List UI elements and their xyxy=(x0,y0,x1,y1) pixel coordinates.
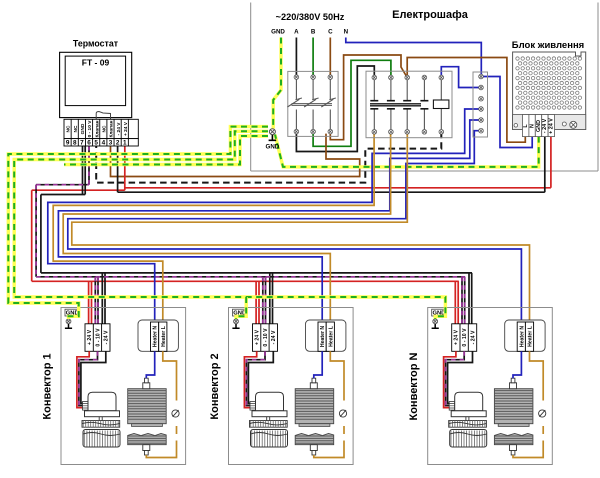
svg-text:C: C xyxy=(328,29,333,36)
cabinet ground GND symbol xyxy=(266,129,280,151)
svg-text:Термостат: Термостат xyxy=(73,39,119,49)
svg-text:GND: GND xyxy=(80,123,86,134)
svg-text:- 24 V: - 24 V xyxy=(542,118,548,133)
svg-text:Конвектор 2: Конвектор 2 xyxy=(209,353,221,419)
wire neutral N supply xyxy=(346,38,482,77)
wire N to convector 1 heater xyxy=(48,109,479,322)
wire +24V bus to convectors xyxy=(32,190,459,324)
wire N to convector 2 heater xyxy=(58,120,478,322)
svg-text:- 24 V: - 24 V xyxy=(116,122,122,136)
wire L contactor pole 2 to convector 2 heater xyxy=(63,132,390,322)
supply ~220/380V 50Hz labels xyxy=(271,12,348,36)
wire PE ground bus to convector 1 xyxy=(8,127,268,319)
wire N strip to power supply N xyxy=(483,77,532,148)
svg-text:5: 5 xyxy=(94,140,98,147)
svg-text:7: 7 xyxy=(80,140,84,147)
wire PE ground bus to convector N xyxy=(64,136,268,165)
svg-text:NC: NC xyxy=(66,125,72,132)
wire phase C breaker to contactor xyxy=(330,55,407,140)
convector N xyxy=(408,308,552,465)
svg-text:Конвектор 1: Конвектор 1 xyxy=(42,353,54,419)
contactor KM1 xyxy=(366,71,452,138)
svg-text:A: A xyxy=(294,29,299,36)
wire PE ground bus to convector 2 xyxy=(14,131,445,319)
wire PE power supply GND to ground point xyxy=(275,135,539,167)
terminal strip X1 (N distribution) xyxy=(473,72,488,137)
svg-text:Клапан: Клапан xyxy=(109,120,115,137)
svg-text:9: 9 xyxy=(66,140,70,147)
power supply Блок живлення xyxy=(512,40,586,137)
svg-text:Клапан: Клапан xyxy=(94,120,100,137)
svg-text:NC: NC xyxy=(73,125,79,132)
thermostat FT-09 xyxy=(60,39,132,120)
thermostat terminal strip xyxy=(64,119,138,146)
svg-text:Конвектор N: Конвектор N xyxy=(408,352,420,420)
svg-text:1: 1 xyxy=(123,140,127,147)
convector 2 xyxy=(209,308,353,465)
convector 1 xyxy=(42,308,186,465)
svg-text:6: 6 xyxy=(87,140,91,147)
circuit breaker QF1 xyxy=(287,71,338,136)
svg-text:0 - 10 V: 0 - 10 V xyxy=(87,120,93,138)
svg-text:N: N xyxy=(529,124,535,128)
wire contactor coil to thermostat Клапан (dashed) xyxy=(96,132,441,183)
wire N to convector N heater xyxy=(68,131,522,322)
wire N strip to contactor coil xyxy=(441,67,479,88)
wire phase B supply xyxy=(312,38,314,78)
svg-text:2: 2 xyxy=(116,140,120,147)
svg-text:+ 24 V: + 24 V xyxy=(123,121,129,136)
wire +24V thermostat to power supply xyxy=(125,137,551,191)
svg-text:+ 24 V: + 24 V xyxy=(549,118,555,134)
wire phase A supply xyxy=(295,38,297,78)
svg-text:4: 4 xyxy=(102,140,106,147)
wire thermostat Клапан to breaker C pole xyxy=(111,134,360,177)
wire -24V thermostat to power supply xyxy=(118,137,545,193)
svg-text:FT - 09: FT - 09 xyxy=(82,58,110,68)
wire phase C supply xyxy=(329,38,331,78)
svg-text:N: N xyxy=(344,29,349,36)
wire L contactor pole 1 to convector 1 heater xyxy=(53,132,374,322)
svg-text:NC: NC xyxy=(101,125,107,132)
svg-text:GND: GND xyxy=(271,29,285,36)
svg-text:GND: GND xyxy=(536,120,542,132)
svg-text:GND: GND xyxy=(266,144,280,151)
cabinet Електрошафа enclosure xyxy=(251,3,598,172)
wire PE supply to cabinet ground xyxy=(273,38,281,129)
wire phase A breaker to contactor xyxy=(296,66,374,152)
wire L contactor pole 3 to convector N heater xyxy=(72,132,530,322)
svg-text:8: 8 xyxy=(73,140,77,147)
svg-text:~220/380V 50Hz: ~220/380V 50Hz xyxy=(276,12,345,22)
svg-text:B: B xyxy=(311,29,316,36)
svg-text:Блок живлення: Блок живлення xyxy=(512,40,584,51)
wire 0-10V thermostat to convectors (violet dashed) xyxy=(36,146,465,324)
wire phase C to power supply L xyxy=(407,58,525,143)
svg-text:Електрошафа: Електрошафа xyxy=(392,9,469,21)
svg-text:3: 3 xyxy=(109,140,113,147)
wire GND/common thermostat to convectors xyxy=(41,146,472,324)
wire phase B breaker to contactor xyxy=(313,60,391,146)
